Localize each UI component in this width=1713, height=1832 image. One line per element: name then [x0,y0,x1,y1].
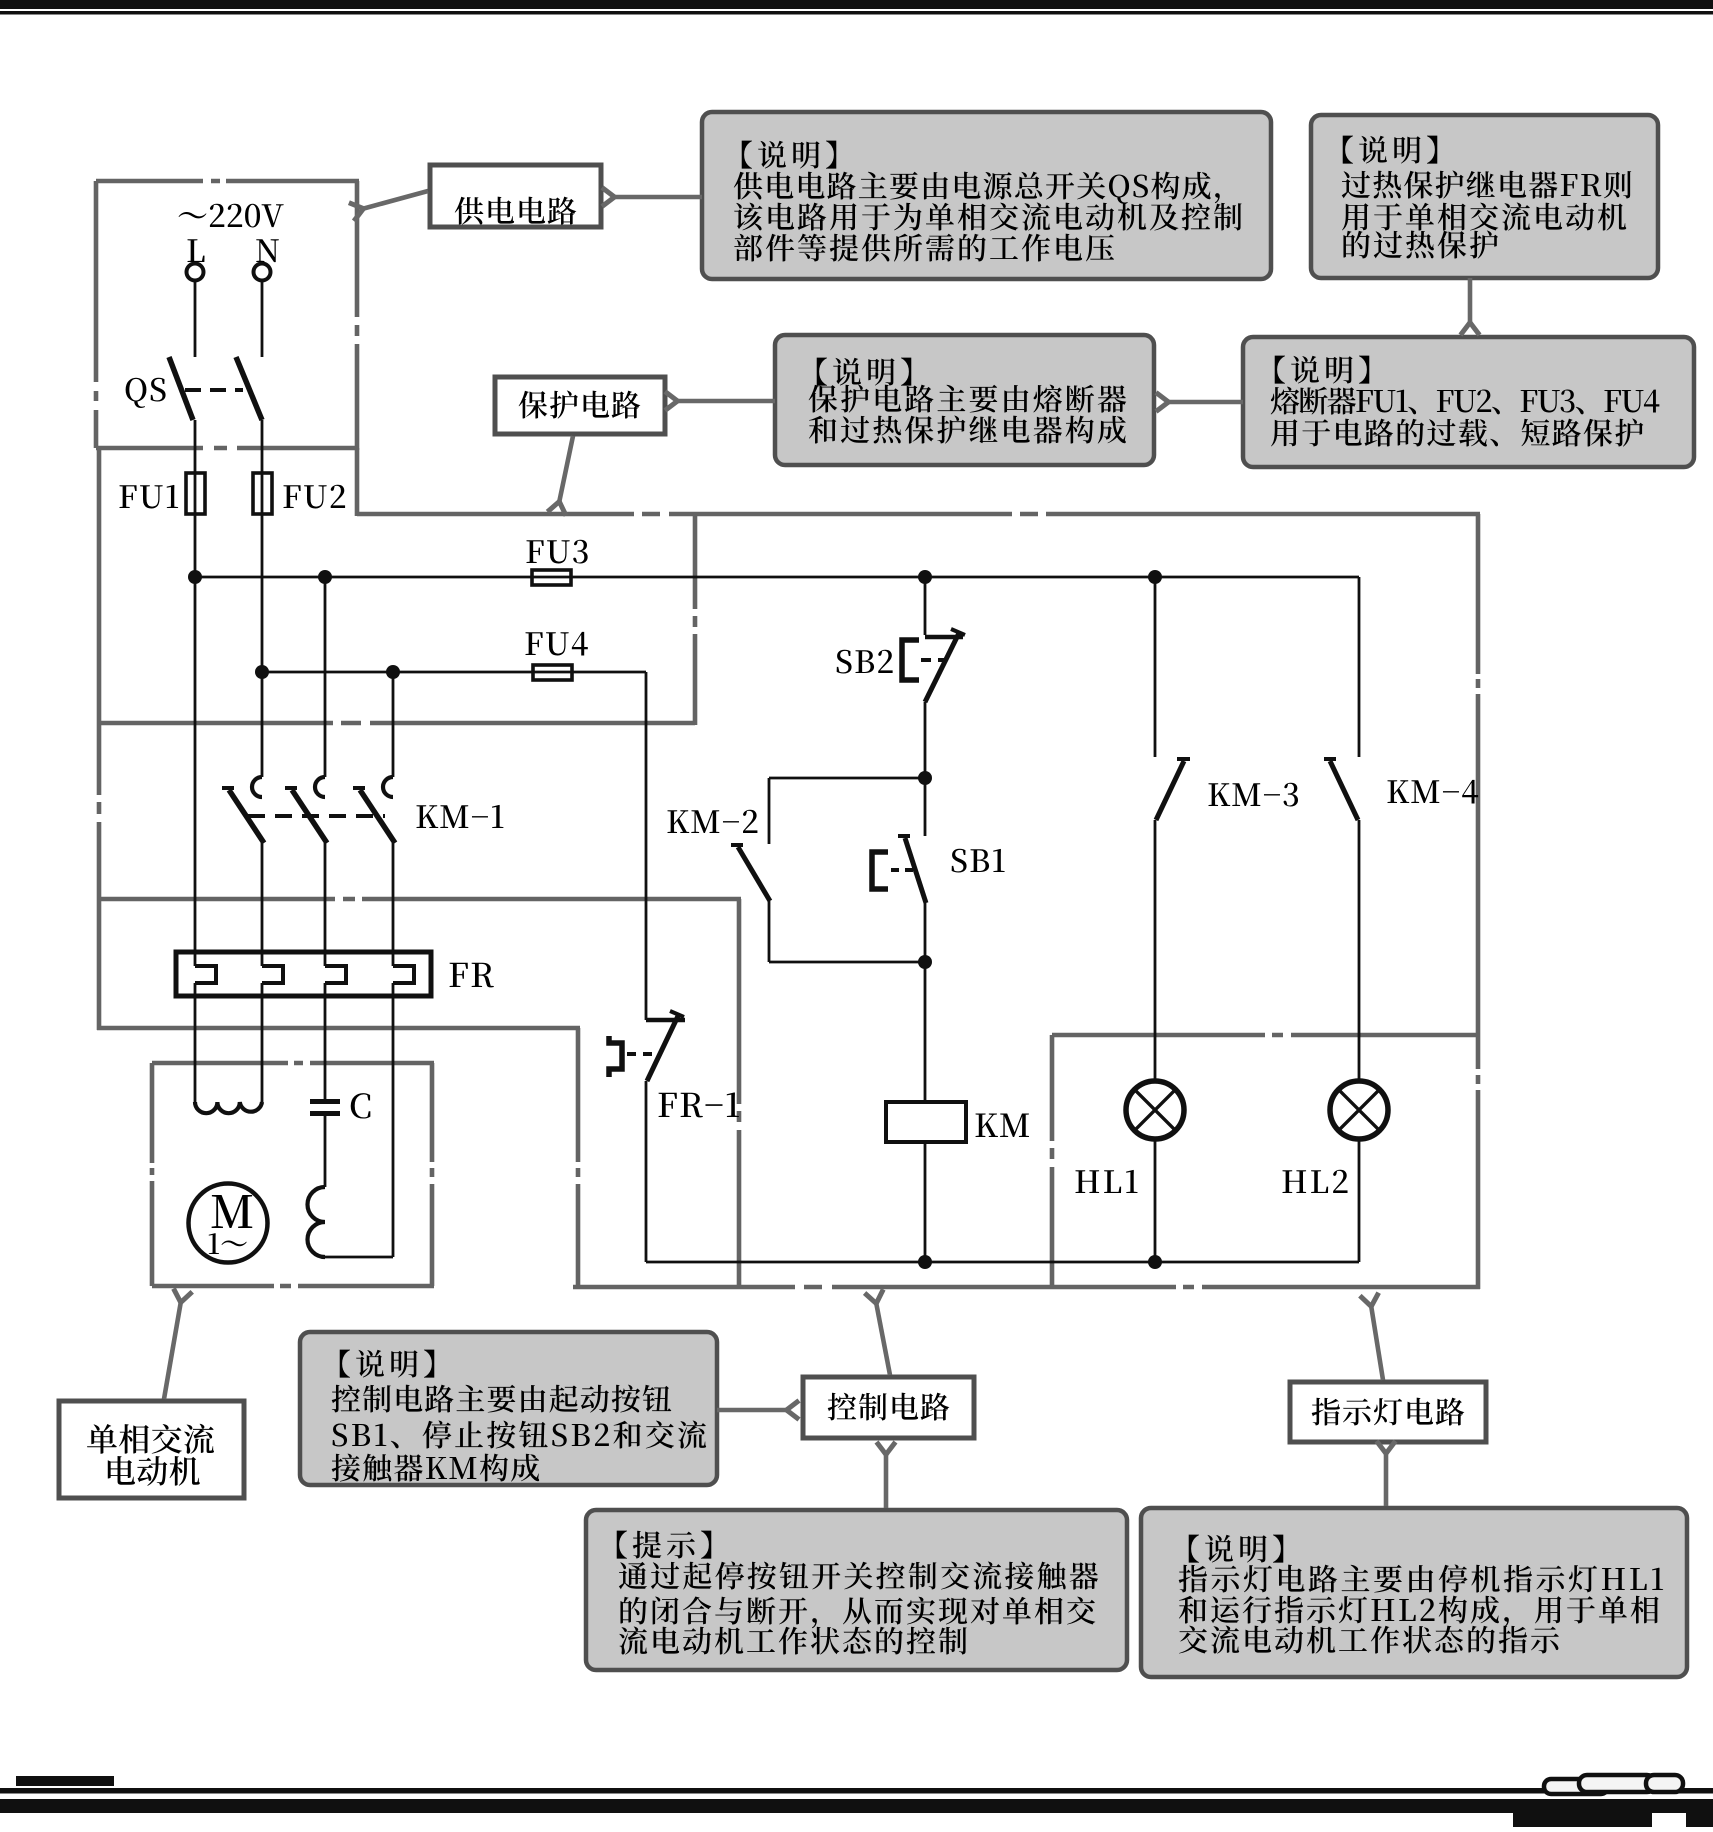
frame: supply-circuit box left edge [94,181,99,448]
arrow: callout4 to callout3 [1167,400,1243,405]
FR heater pole3 [325,966,346,983]
wire KM-1 pole1 down [261,843,264,966]
text: text FR-1 [659,1092,739,1117]
junction dots [188,570,202,584]
contactor KM-1 link dashed [248,814,385,818]
text: calloutG line3 [1179,1596,1659,1628]
wire KM-1 pole2 down [324,843,327,966]
wire bus corner to KM-4 [1358,577,1361,757]
wire aux winding to pole4 [325,1256,393,1259]
page top black bars [0,0,1713,9]
text: label-gongdian [455,197,577,225]
wire HL1 to bottom bus [1154,1139,1157,1262]
terminal N circle [254,264,271,281]
wire HL2 to bottom bus [1358,1139,1361,1262]
arrow: control label to control frame [876,1302,890,1375]
button SB2 blade [925,633,959,702]
text: label-baohu [519,390,641,418]
text: text FU2 [284,485,346,509]
text: callout2 line1 [1343,136,1438,164]
text: text FR [450,963,494,988]
text: callout4 line2 [1271,387,1660,415]
frame: supply-circuit box top edge [96,179,359,184]
wire SB2 to junction [924,702,927,778]
frame: motor box right edge [430,1063,435,1286]
frame: bottom outer edge y=1287 [573,1285,1480,1290]
frame: control-circuit left edge x=739 [737,899,742,1289]
wire KM-3 to HL1 [1154,820,1157,1081]
page bottom small bar [16,1776,114,1786]
wire SB1 down [924,903,927,962]
frame: protection bottom edge y=723 [97,721,695,726]
text: callout3 line2 [809,384,1127,412]
button SB1 blade [905,838,926,903]
wire FU4 corner down to FR-1 [645,672,648,1020]
text: text HL1 [1076,1170,1138,1193]
wire KM coil to bottom bus [924,1142,927,1262]
capacitor C plates [310,1099,340,1104]
callout box 2 (FR overheat description) [1311,115,1658,278]
contactor KM-1 pole3 fixed contact hook [383,777,393,797]
text: text FU4 [526,632,588,656]
label box: supply circuit [430,165,601,227]
terminal L circle [187,264,204,281]
text: text KM-4 [1388,780,1479,804]
wire: L phase down to FR [194,577,197,966]
wire QS pole1 to FU1 [194,420,197,577]
page bottom doodles [1544,1779,1608,1794]
arrow: indicator label to indicator frame [1371,1305,1383,1380]
text: text FU3 [527,540,588,564]
text: label-motor line1 [87,1424,214,1454]
frame: indicator-lamp left edge x=1052 [1050,1035,1055,1287]
frame: motor box left edge [150,1063,155,1286]
button SB2 contact bar [925,635,963,640]
frame: motor-section right edge x=578 [576,1028,581,1289]
switch QS pole2 blade [236,357,262,420]
text: callout1 line1 [742,141,837,169]
label box: single-phase AC motor [59,1401,244,1498]
page bottom thick bar [0,1799,1713,1813]
contactor KM-1 pole2 fixed contact hook [315,777,325,797]
frame: left outer edge x=99 [97,448,102,1030]
arrow: callout7 to indicator label [1384,1452,1389,1506]
text: label-kongzhi [828,1393,950,1421]
wire FR pole2 down [261,983,264,1102]
wire FR-1 down to bottom bus [645,1081,648,1262]
wire bus to SB2 [924,577,927,635]
frame: motor-section top edge y=1028 [97,1026,580,1031]
text: label-zhishideng [1312,1398,1465,1426]
button SB2 actuator [902,640,919,680]
text: calloutE line1 [340,1350,435,1378]
wire KM-4 to HL2 [1358,820,1361,1081]
wire KM-1 pole3 down [392,843,395,966]
contact FR-1 blade [647,1016,678,1081]
contact FR-1 bar [646,1018,685,1023]
switch QS link dashed [185,388,243,392]
switch QS pole1 blade [169,357,193,420]
arrow: callout5 to control label [717,1408,788,1413]
wire KM-2 branch top [769,777,925,780]
text: calloutE line2 [332,1385,672,1413]
wire: N continues down to KM-1 [261,672,264,777]
text: text ~220V [179,204,284,228]
label box: indicator lamp circuit [1290,1382,1486,1442]
text: label-motor line2 [108,1456,200,1486]
text: calloutG line1 [1189,1535,1284,1563]
callout box 4 (fuses description) [1243,337,1694,467]
wire SB1 junction to KM coil [924,962,927,1102]
FR heater pole4 [393,966,414,983]
contactor KM-3 blade [1156,761,1184,820]
text: text KM-2 [668,810,758,833]
frame: supply-circuit box right edge [355,181,360,450]
text: calloutF line1 [617,1531,712,1559]
text: text KM [976,1114,1029,1137]
fuse FU2 [253,473,272,514]
wire capacitor to aux winding [324,1116,327,1187]
arrow: callout3 to protection label [676,399,775,404]
text: calloutG line4 [1179,1625,1559,1653]
text: calloutE line3 [333,1420,707,1448]
motor main winding [195,1102,262,1113]
wire FR pole4 down [392,983,395,1257]
button SB1 actuator [872,852,888,889]
text: text N [256,239,278,262]
arrow: hint box to control label [884,1453,889,1508]
contactor KM-2 blade [738,847,770,901]
callout box 7 (indicator lamp description) [1141,1508,1687,1677]
frame: indicator-lamp top edge y=1035 [1052,1033,1478,1038]
fuse FU1 [186,473,205,514]
text: calloutF line3 [620,1597,1095,1629]
fuse FU4 [533,665,572,680]
text: callout3 line3 [809,415,1126,443]
text: calloutF line4 [619,1626,967,1654]
text: callout4 line3 [1271,418,1643,446]
page bottom thin rule [0,1788,1713,1794]
frame: protection-circuit top edge y=514 [357,512,1480,517]
text: callout2 line3 [1342,202,1626,230]
frame: supply-circuit box bottom edge [96,446,359,451]
label box: control circuit [803,1377,974,1438]
contactor KM-1 pole3 blade [360,790,395,843]
motor M circle [189,1184,268,1263]
frame: right outer edge x=1478 [1476,514,1481,1289]
wire: L bus with FU3 to right side [195,576,1359,579]
fuse FU3 [532,570,571,585]
frame: control-circuit top edge y=899 [97,897,741,902]
wire N terminal down [261,280,264,357]
contact FR-1 actuator [609,1036,622,1077]
arrow: callout2 down to callout4 [1468,278,1473,324]
frame: motor box bottom edge [152,1284,434,1289]
callout box 5 (control circuit description) [300,1332,717,1485]
wire QS pole2 to FU2 [261,420,264,672]
frame: motor box top edge [152,1061,434,1066]
wire FR pole3 down [324,983,327,1099]
text: callout2 line2 [1342,170,1632,198]
wire junction to SB1 [924,778,927,836]
contactor KM-1 pole2 blade [292,790,327,843]
wire bus to KM-3 [1154,577,1157,757]
text: text KM-3 [1209,783,1298,807]
lamp HL1 [1126,1081,1184,1139]
contactor coil KM [886,1102,966,1142]
wire: N bus with FU4 [262,671,646,674]
motor aux winding [308,1187,326,1257]
arrow: callout1 to supply label [613,195,702,200]
text: calloutE line4 [332,1454,540,1482]
FR heater pole2 [262,966,283,983]
text: callout4 line1 [1275,356,1370,384]
callout box 6 (hint box) [586,1510,1127,1670]
text: calloutF line2 [619,1561,1098,1589]
callout box 1 (supply circuit description) [702,112,1271,279]
text: text M [212,1195,253,1228]
text: text SB2 [837,650,893,674]
wire KM-2 branch bottom [768,901,771,962]
text: text KM-1 [417,805,504,828]
text: callout2 line4 [1343,230,1498,258]
wire FR pole1 down [194,983,197,1102]
frame: right edge below supply box down to protection line [355,448,360,516]
arrow: supply label to supply box [362,191,428,209]
text: callout1 line2 [734,172,1220,204]
text: text C [351,1093,371,1118]
text: callout1 line4 [734,234,1114,262]
wire: branch x=325 from L bus [324,577,327,777]
callout box 3 (protection circuit description) [775,335,1154,465]
button SB2 actuator dashes [921,658,947,662]
text: text FU1 [120,485,179,509]
text: calloutG line2 [1179,1564,1663,1592]
arrow: protection label to protection frame [559,436,573,503]
text: text QS [126,378,166,408]
frame: protection divider vertical x=695 [693,514,698,725]
text: text HL2 [1283,1170,1348,1193]
text: text 1~ [209,1233,247,1254]
text: text L [188,239,205,262]
page bottom right blocks [1513,1813,1652,1827]
wire L terminal down [194,280,197,357]
wire: branch x=393 from N bus [392,672,395,777]
text: text SB1 [952,849,1005,873]
contact FR-1 actuator dashes [627,1052,657,1056]
FR heater pole1 [195,966,216,983]
contactor KM-1 pole1 blade [229,790,264,843]
contactor KM-4 blade [1330,761,1358,820]
thermal relay FR box [176,952,431,996]
text: callout1 line3 [734,202,1241,230]
arrow: motor label to motor box [164,1301,181,1399]
lamp HL2 [1330,1081,1388,1139]
button SB1 actuator dashes [891,868,914,872]
text: callout3 line1 [817,358,912,386]
wire bottom control bus [646,1261,1359,1264]
contactor KM-1 pole1 fixed contact hook [252,777,262,797]
label box: protection circuit [495,377,665,434]
